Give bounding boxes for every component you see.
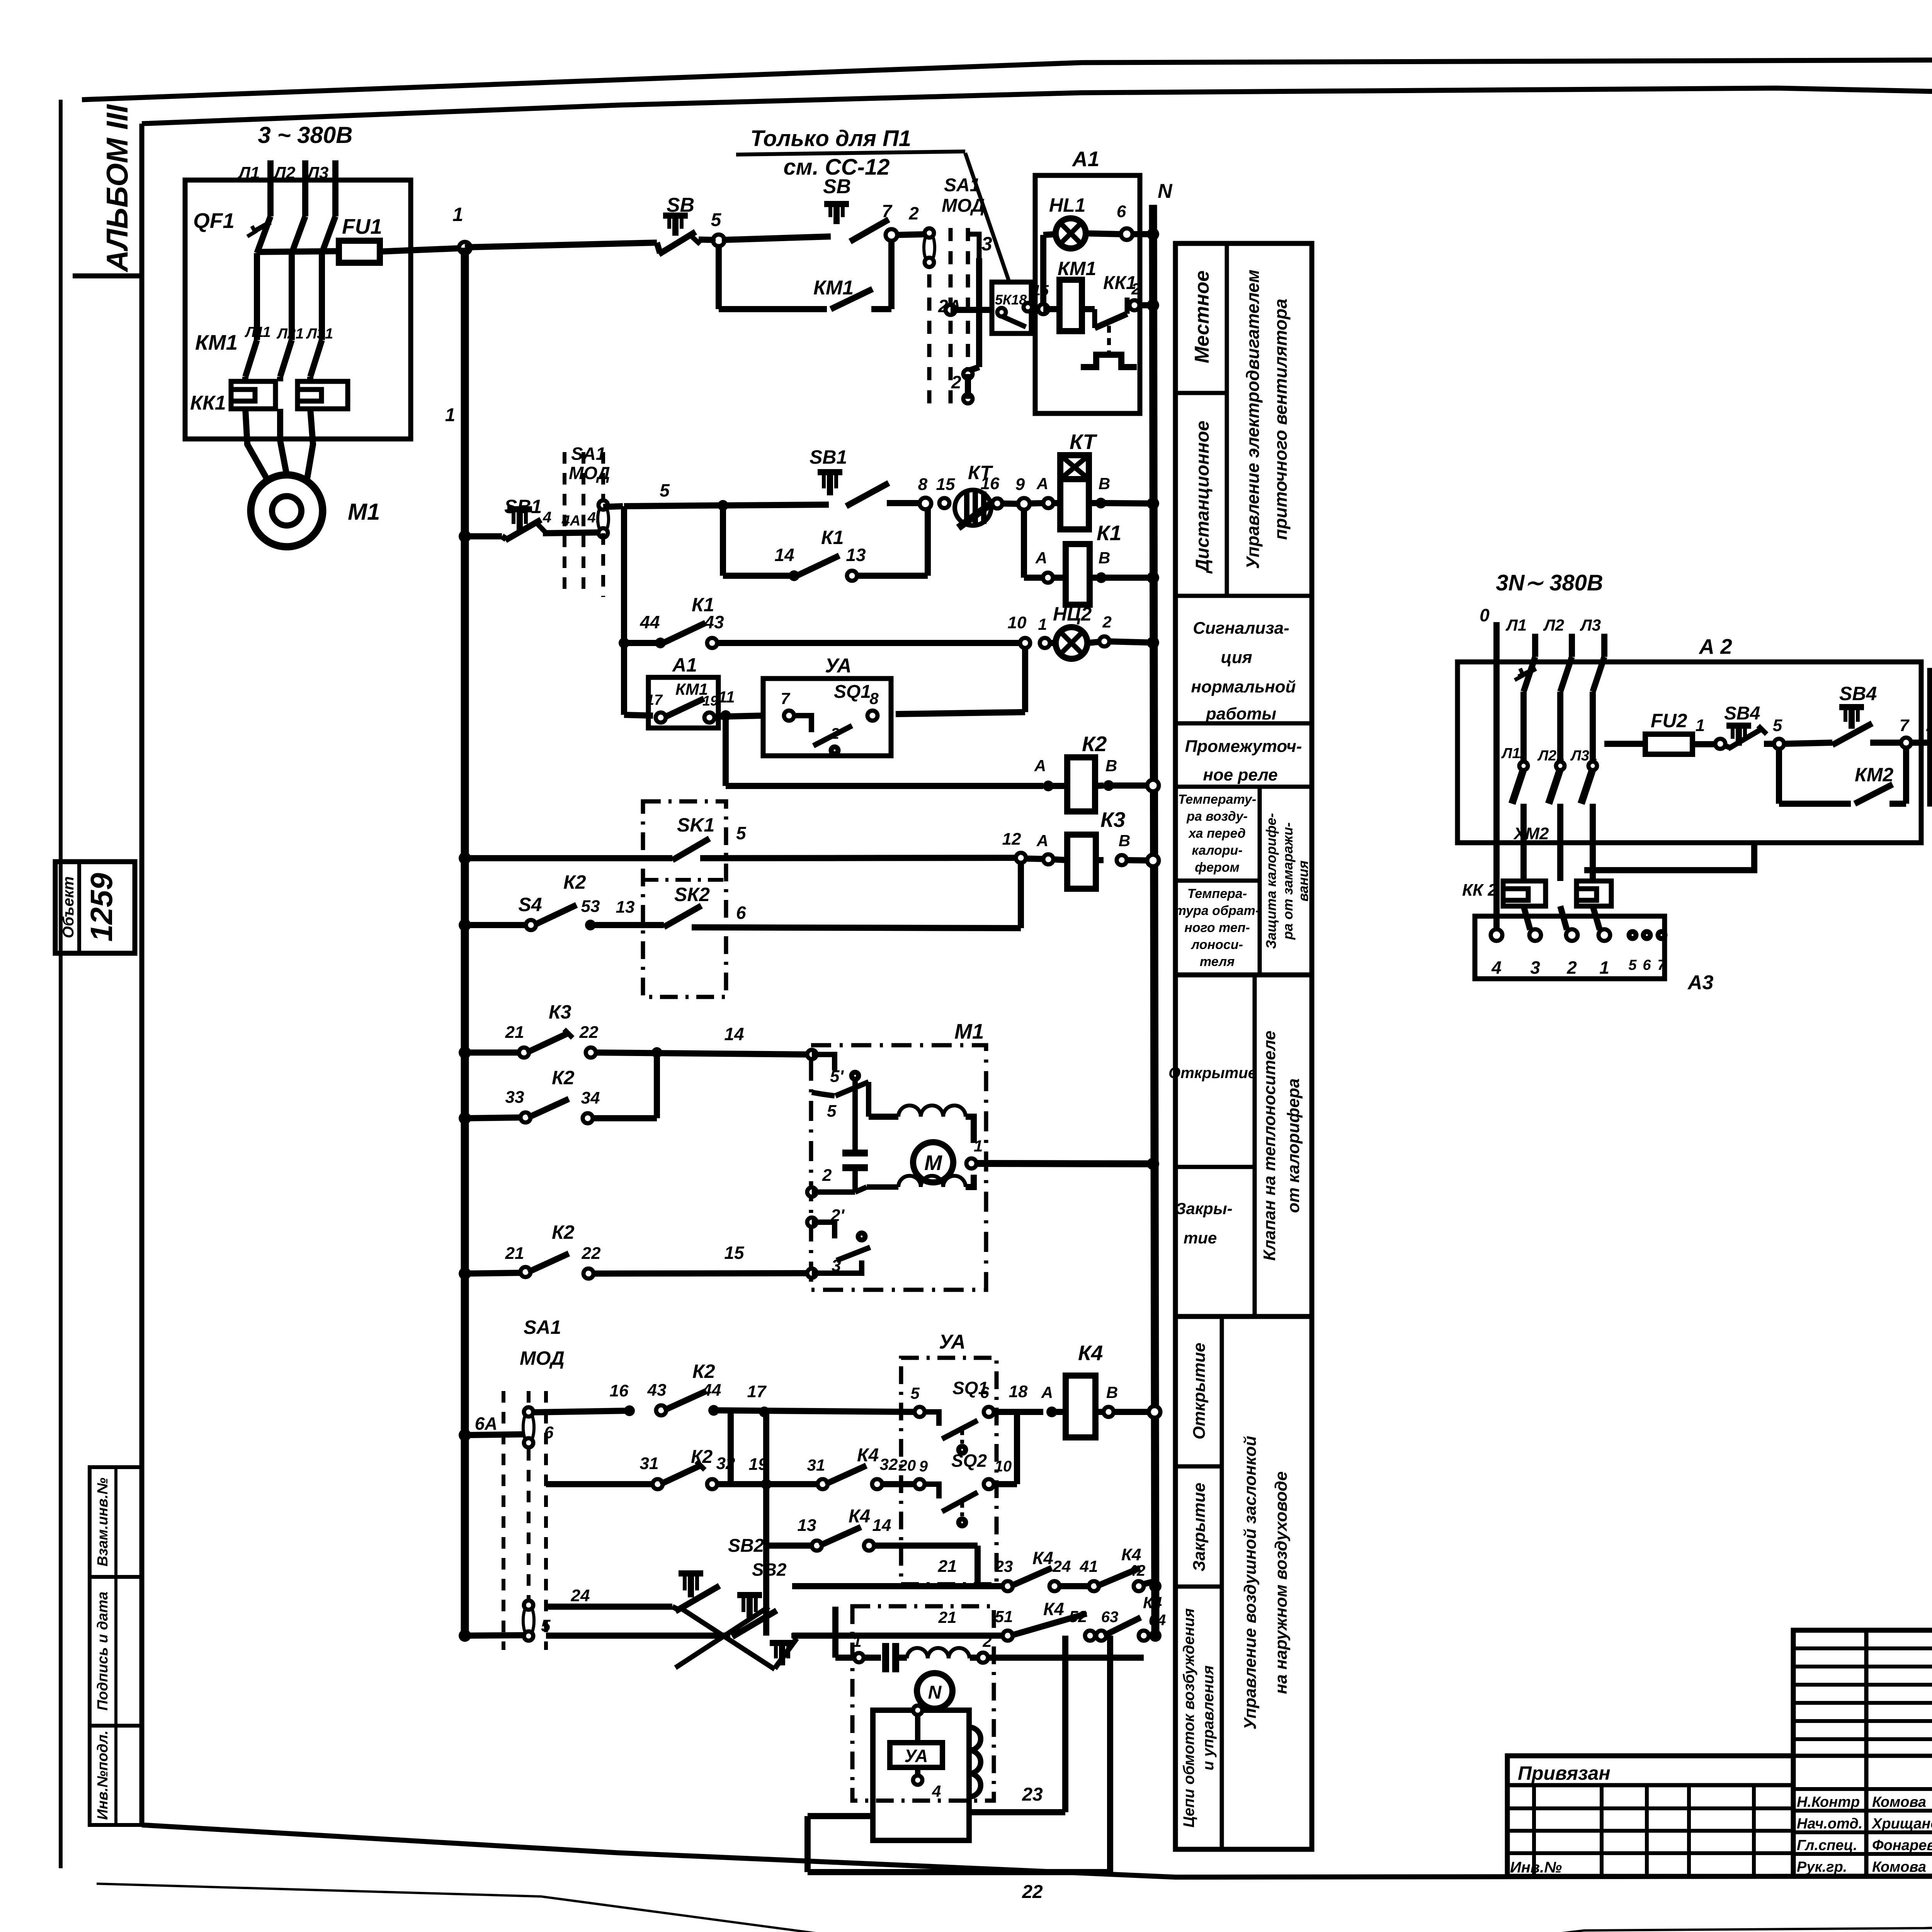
circuit breaker QF2 <box>1524 657 1535 692</box>
svg-text:Н.Контр: Н.Контр <box>1797 1794 1860 1810</box>
svg-text:А3: А3 <box>1687 971 1714 994</box>
svg-text:К4: К4 <box>1121 1545 1141 1564</box>
svg-text:КМ1: КМ1 <box>1058 258 1096 279</box>
svg-text:21: 21 <box>505 1023 524 1042</box>
svg-text:и управления: и управления <box>1200 1665 1217 1770</box>
svg-text:К2: К2 <box>552 1221 575 1243</box>
svg-text:лоноси-: лоноси- <box>1190 937 1243 952</box>
svg-text:24: 24 <box>1053 1557 1071 1575</box>
svg-text:1: 1 <box>852 1632 861 1650</box>
svg-text:Л11: Л11 <box>1501 745 1527 762</box>
vertical 19 down to bottom rungs <box>763 1412 769 1636</box>
sidebar cell Взам.инв.№ <box>90 1467 142 1577</box>
svg-text:А1: А1 <box>672 654 697 676</box>
rung 31-32-19 with K2 K4 SQ2 <box>546 1481 655 1487</box>
svg-text:7: 7 <box>882 201 893 221</box>
svg-text:1: 1 <box>445 405 456 425</box>
rung 16-43-44-17 <box>534 1411 626 1412</box>
svg-text:5: 5 <box>660 480 670 500</box>
SK2 return vertical to node 12 <box>1018 862 1024 928</box>
svg-text:Л1: Л1 <box>1505 616 1527 634</box>
svg-text:Л3: Л3 <box>1580 616 1601 634</box>
svg-text:44: 44 <box>639 612 660 632</box>
sheet outer left border <box>59 100 63 1868</box>
svg-text:44: 44 <box>702 1381 721 1400</box>
svg-text:42: 42 <box>1128 1562 1146 1579</box>
svg-text:К4: К4 <box>1043 1599 1064 1619</box>
table A cell температура воздуха <box>1258 787 1262 975</box>
function table B outline <box>1175 975 1312 1316</box>
svg-text:5: 5 <box>827 1102 837 1121</box>
sheet inner frame top line <box>142 88 1932 124</box>
svg-text:3N∼ 380В: 3N∼ 380В <box>1496 570 1603 595</box>
svg-text:ХМ2: ХМ2 <box>1513 824 1549 843</box>
svg-text:УА: УА <box>939 1331 966 1353</box>
leader line from note to БК18 <box>965 153 1009 282</box>
svg-text:МОД: МОД <box>942 196 985 216</box>
svg-text:6: 6 <box>544 1423 554 1442</box>
phase stubs to KM2 <box>1520 692 1527 763</box>
svg-text:5: 5 <box>736 823 747 843</box>
svg-text:Л3: Л3 <box>306 163 329 182</box>
svg-text:тура обрат-: тура обрат- <box>1175 903 1260 918</box>
relay K1 self-hold contact 14-13 branch <box>720 510 726 576</box>
svg-text:А: А <box>1041 1383 1053 1401</box>
SA1 lens contact at SB1 <box>601 452 605 502</box>
power assembly enclosure box <box>185 180 411 439</box>
rung 21-23-24-41-42 K4 <box>792 1583 1005 1589</box>
svg-text:на наружном воздуховоде: на наружном воздуховоде <box>1272 1471 1291 1694</box>
relay K2 coil rung <box>726 783 1043 789</box>
svg-text:6: 6 <box>1117 202 1126 221</box>
svg-text:2: 2 <box>908 203 919 223</box>
svg-text:теля: теля <box>1200 954 1235 969</box>
svg-text:К4: К4 <box>1032 1548 1053 1568</box>
svg-text:работы: работы <box>1206 704 1276 723</box>
svg-text:SQ1: SQ1 <box>834 682 871 702</box>
svg-text:В: В <box>1119 832 1130 850</box>
top rung wire from node1 to SB <box>465 243 657 247</box>
svg-text:ного теп-: ного теп- <box>1184 920 1250 935</box>
svg-text:6: 6 <box>980 1383 989 1401</box>
svg-text:16: 16 <box>610 1381 629 1400</box>
rung 44-43 K1 contact <box>619 638 629 648</box>
svg-text:Комова: Комова <box>1872 1859 1926 1875</box>
svg-text:16: 16 <box>981 474 1000 493</box>
svg-text:Местное: Местное <box>1191 270 1213 363</box>
svg-text:нормальной: нормальной <box>1191 677 1296 696</box>
svg-text:6А: 6А <box>475 1413 498 1434</box>
svg-text:Промежуточ-: Промежуточ- <box>1185 737 1302 756</box>
pushbutton SB1 (break) rung <box>459 530 471 543</box>
svg-text:КМ1: КМ1 <box>195 330 238 354</box>
svg-text:АЛЬБОМ III: АЛЬБОМ III <box>100 104 134 272</box>
vertical node11 down to K2 rung <box>723 719 729 786</box>
interlock box A1 right <box>1930 670 1932 804</box>
terminal strip A3 <box>1475 916 1665 979</box>
svg-text:ра от замаражи-: ра от замаражи- <box>1280 822 1296 940</box>
svg-text:13: 13 <box>846 545 866 565</box>
aux contact box A1 (KM1 17-19) <box>648 677 718 728</box>
svg-text:К2: К2 <box>563 871 586 893</box>
bottom damper motor N circle <box>917 1673 952 1709</box>
svg-text:1: 1 <box>452 204 463 225</box>
svg-text:22: 22 <box>1022 1882 1043 1902</box>
rung 21-22 K2 to damper M1 input 3 <box>459 1267 471 1280</box>
svg-text:М1: М1 <box>954 1019 984 1043</box>
svg-text:51: 51 <box>995 1607 1013 1626</box>
svg-text:SK1: SK1 <box>677 814 714 836</box>
svg-text:1: 1 <box>1696 716 1705 735</box>
svg-text:8: 8 <box>869 689 879 707</box>
svg-text:19: 19 <box>702 693 718 709</box>
svg-text:Подпись и дата: Подпись и дата <box>95 1592 111 1711</box>
vertical link x1615 <box>621 506 627 715</box>
svg-text:5: 5 <box>1773 716 1782 735</box>
bypass vertical SQ2 to K4 feed <box>1014 1412 1020 1484</box>
svg-text:31: 31 <box>807 1456 825 1474</box>
svg-text:А: А <box>1036 474 1048 493</box>
svg-text:31: 31 <box>640 1454 659 1473</box>
svg-text:ция: ция <box>1221 648 1252 667</box>
signature table grid <box>1793 1630 1932 1876</box>
svg-text:Клапан на теплоносителе: Клапан на теплоносителе <box>1260 1031 1279 1260</box>
svg-text:Привязан: Привязан <box>1518 1762 1611 1784</box>
svg-text:Нач.отд.: Нач.отд. <box>1797 1816 1862 1832</box>
svg-text:QF1: QF1 <box>193 209 235 233</box>
sheet top outer border line <box>82 58 1932 100</box>
svg-text:фером: фером <box>1195 860 1240 875</box>
svg-text:К4: К4 <box>849 1506 870 1527</box>
wire phase to fuse FU2 <box>1604 741 1645 747</box>
svg-text:SК2: SК2 <box>674 884 710 905</box>
svg-text:КТ: КТ <box>1070 430 1097 454</box>
svg-text:К4: К4 <box>857 1445 879 1466</box>
svg-text:МОД: МОД <box>520 1347 565 1369</box>
svg-text:SА1: SА1 <box>524 1316 561 1338</box>
svg-text:8: 8 <box>918 475 928 494</box>
svg-text:10: 10 <box>995 1458 1012 1475</box>
svg-text:2: 2 <box>1102 613 1111 631</box>
svg-text:Температу-: Температу- <box>1178 792 1257 807</box>
KM1 holding bypass branch <box>716 246 722 309</box>
svg-text:6: 6 <box>1643 957 1651 973</box>
damper limit box УА (dash-dot, bottom) <box>901 1358 997 1584</box>
svg-text:N: N <box>928 1682 942 1703</box>
svg-text:Взам.инв.№: Взам.инв.№ <box>95 1478 111 1566</box>
svg-text:SB2: SB2 <box>728 1536 764 1556</box>
rung 21-22 K3 to damper M1 <box>459 1046 471 1059</box>
svg-text:НЦ2: НЦ2 <box>1053 603 1092 625</box>
svg-text:УА: УА <box>825 655 852 677</box>
svg-text:13: 13 <box>798 1516 816 1535</box>
vertical 17-19 link <box>728 1410 734 1484</box>
damper motor M circle <box>913 1142 953 1182</box>
svg-text:21: 21 <box>938 1608 957 1626</box>
wire node2 to N bus <box>1139 302 1153 308</box>
svg-text:Л2: Л2 <box>273 163 296 182</box>
svg-text:4: 4 <box>1491 957 1502 978</box>
svg-text:приточного вентилятора: приточного вентилятора <box>1270 299 1291 540</box>
wire QF1 phase stubs down <box>289 253 295 340</box>
vertical from node10 to SQ1 rung <box>1022 648 1028 712</box>
svg-text:А 2: А 2 <box>1698 634 1732 658</box>
bottom damper side winding <box>969 1727 981 1797</box>
svg-text:1: 1 <box>1038 615 1047 633</box>
wire node7 to A1 box <box>1911 740 1932 746</box>
svg-text:5: 5 <box>711 210 722 230</box>
svg-text:12: 12 <box>1002 830 1021 849</box>
svg-text:5: 5 <box>910 1384 920 1402</box>
svg-text:В: В <box>1099 474 1110 493</box>
relay K1 coil rung <box>1021 509 1027 578</box>
panel box A2 <box>1458 662 1921 843</box>
rung 13-14 K4 <box>766 1543 814 1549</box>
svg-text:А: А <box>1034 757 1046 775</box>
SA1 contact lens top <box>924 233 935 262</box>
svg-text:К2: К2 <box>692 1361 715 1382</box>
wire A2 bottom to heater area <box>1584 843 1754 870</box>
bottom damper solenoid УА box <box>873 1710 969 1840</box>
inner frame left border <box>139 124 145 1825</box>
svg-text:24: 24 <box>571 1586 590 1605</box>
svg-text:Инв.№подл.: Инв.№подл. <box>95 1730 111 1820</box>
svg-text:ра возду-: ра возду- <box>1186 809 1248 824</box>
svg-text:К2: К2 <box>1082 732 1107 756</box>
svg-text:Комова: Комова <box>1872 1794 1926 1810</box>
svg-text:Цепи обмоток возбуждения: Цепи обмоток возбуждения <box>1180 1608 1197 1828</box>
damper drive box M1 (dash-dot) <box>811 1045 986 1290</box>
function table C outline <box>1175 1316 1312 1849</box>
svg-text:Л31: Л31 <box>306 326 333 342</box>
svg-text:Инв.№: Инв.№ <box>1510 1859 1562 1876</box>
svg-text:N: N <box>1158 180 1173 202</box>
svg-text:15: 15 <box>936 475 955 494</box>
damper drive box (bottom, dash-dot) <box>852 1606 994 1801</box>
sidebar cell Подпись и дата <box>90 1577 142 1726</box>
svg-text:2: 2 <box>830 725 839 742</box>
wire БК18 to node 15 <box>1031 306 1043 312</box>
svg-text:11: 11 <box>718 688 735 706</box>
rung 21-51-52-63-64 K4 <box>792 1633 1005 1639</box>
svg-text:калори-: калори- <box>1192 843 1242 858</box>
svg-text:А: А <box>1036 832 1048 850</box>
wire node5 to SB4 make <box>1784 743 1832 744</box>
svg-text:18: 18 <box>1009 1382 1028 1401</box>
svg-text:КК1: КК1 <box>190 392 226 414</box>
sidebar cell Инв.№подл. <box>90 1726 142 1825</box>
thermostat S4 rung <box>459 919 471 931</box>
svg-text:33: 33 <box>505 1088 524 1107</box>
svg-text:7: 7 <box>1900 716 1910 735</box>
svg-text:Темпера-: Темпера- <box>1187 886 1247 901</box>
svg-text:21: 21 <box>505 1244 524 1263</box>
svg-text:В: В <box>1099 549 1110 567</box>
svg-text:Хрищанович: Хрищанович <box>1871 1816 1932 1832</box>
damper motor bottom winding <box>855 1187 867 1192</box>
svg-text:6: 6 <box>736 903 746 923</box>
svg-text:2: 2 <box>1131 280 1140 298</box>
svg-text:22: 22 <box>579 1023 599 1042</box>
svg-text:14: 14 <box>872 1516 891 1535</box>
svg-text:3: 3 <box>1530 957 1540 978</box>
terminal block БК18 <box>992 282 1031 333</box>
svg-text:ха перед: ха перед <box>1188 826 1246 841</box>
bottom damper winding <box>907 1648 969 1658</box>
svg-text:2: 2 <box>1566 957 1577 978</box>
svg-text:Дистанционное: Дистанционное <box>1192 421 1213 574</box>
svg-text:М1: М1 <box>348 499 380 525</box>
svg-text:SB: SB <box>823 175 851 198</box>
svg-text:К4: К4 <box>1078 1341 1103 1365</box>
wire node5 to SB2 <box>722 236 831 240</box>
svg-text:S4: S4 <box>518 894 542 915</box>
svg-text:53: 53 <box>581 897 600 916</box>
motor M1 <box>251 475 323 547</box>
svg-text:В: В <box>1105 757 1117 775</box>
svg-text:Защита калорифе-: Защита калорифе- <box>1263 813 1279 949</box>
svg-text:9: 9 <box>1015 475 1025 494</box>
svg-text:К1: К1 <box>821 527 844 548</box>
table A cell Местное <box>1225 243 1229 596</box>
svg-text:тие: тие <box>1184 1229 1217 1247</box>
svg-text:41: 41 <box>1080 1557 1098 1575</box>
svg-text:7: 7 <box>1657 957 1666 973</box>
svg-text:Л21: Л21 <box>276 326 304 342</box>
svg-text:7: 7 <box>781 689 790 707</box>
svg-text:Сигнализа-: Сигнализа- <box>1193 619 1289 638</box>
svg-text:К3: К3 <box>1100 808 1125 832</box>
rung wire to A1 aux box <box>624 715 653 716</box>
svg-text:5: 5 <box>541 1616 551 1635</box>
svg-text:4: 4 <box>543 509 551 526</box>
svg-text:3: 3 <box>981 233 992 255</box>
svg-text:Гл.спец.: Гл.спец. <box>1797 1837 1857 1854</box>
inner frame bottom line <box>142 1825 1932 1877</box>
svg-text:15: 15 <box>724 1243 745 1263</box>
svg-text:Фонарев: Фонарев <box>1872 1837 1932 1854</box>
svg-text:2: 2 <box>951 372 961 392</box>
SA1 lens contact 5 (bottom) <box>523 1605 534 1636</box>
svg-text:FU2: FU2 <box>1651 710 1687 731</box>
svg-text:Открытие: Открытие <box>1168 1065 1257 1082</box>
svg-text:SQ2: SQ2 <box>951 1451 987 1471</box>
svg-text:1: 1 <box>974 1137 983 1155</box>
svg-text:23: 23 <box>995 1557 1013 1575</box>
limit switch box УА with SQ1 <box>763 679 891 756</box>
svg-text:13: 13 <box>616 898 635 917</box>
svg-text:34: 34 <box>581 1088 600 1107</box>
motor leads to M1 <box>245 409 267 478</box>
svg-text:SB2: SB2 <box>752 1560 787 1580</box>
vertical 63 to 22 wire <box>1107 1636 1113 1872</box>
svg-text:Закрытие: Закрытие <box>1190 1483 1209 1571</box>
svg-text:Рук.гр.: Рук.гр. <box>1797 1859 1847 1875</box>
svg-text:вания: вания <box>1295 861 1311 901</box>
svg-text:1259: 1259 <box>84 873 119 942</box>
svg-text:14: 14 <box>774 545 794 565</box>
svg-text:Л1: Л1 <box>238 163 260 182</box>
svg-text:22: 22 <box>582 1244 601 1263</box>
KK1 heater dashes and element <box>1107 326 1111 352</box>
svg-text:А1: А1 <box>1071 147 1099 171</box>
wire from QF1 to fuse FU1 <box>254 253 260 270</box>
svg-text:КК 2: КК 2 <box>1462 881 1497 900</box>
svg-text:Л11: Л11 <box>244 324 271 340</box>
svg-text:SА1: SА1 <box>944 175 980 196</box>
sidebar divider under АЛЬБОМ III <box>73 274 142 279</box>
svg-text:Только для П1: Только для П1 <box>750 126 911 151</box>
annex table Привязан <box>1507 1756 1793 1876</box>
thermostat SK1 rung <box>459 852 471 864</box>
svg-text:Объект: Объект <box>60 876 77 938</box>
svg-text:52: 52 <box>1069 1607 1087 1626</box>
svg-text:9: 9 <box>919 1458 928 1475</box>
svg-text:SА1: SА1 <box>571 444 605 464</box>
svg-text:20: 20 <box>898 1457 916 1474</box>
svg-text:Управление воздушной заслонкой: Управление воздушной заслонкой <box>1241 1436 1260 1730</box>
svg-text:17: 17 <box>747 1382 767 1401</box>
svg-text:ное реле: ное реле <box>1203 765 1277 784</box>
svg-text:2: 2 <box>982 1632 992 1650</box>
svg-text:63: 63 <box>1101 1609 1119 1626</box>
svg-text:4: 4 <box>932 1782 941 1800</box>
svg-text:А: А <box>1035 549 1047 567</box>
svg-text:от калорифера: от калорифера <box>1284 1078 1303 1213</box>
svg-text:23: 23 <box>1022 1784 1043 1805</box>
branch 33-34 K2 <box>459 1112 471 1124</box>
right vertical N bus wire <box>1153 205 1155 1636</box>
svg-text:10: 10 <box>1008 613 1027 632</box>
svg-text:SB4: SB4 <box>1839 683 1877 704</box>
panel box A1 <box>1035 175 1140 413</box>
svg-text:1: 1 <box>1599 957 1609 978</box>
svg-text:УА: УА <box>905 1746 928 1766</box>
svg-text:43: 43 <box>647 1381 667 1400</box>
svg-text:К3: К3 <box>549 1001 571 1023</box>
svg-text:2: 2 <box>822 1166 832 1185</box>
damper motor top winding <box>869 1114 898 1120</box>
svg-text:SB4: SB4 <box>1724 703 1760 724</box>
svg-text:32: 32 <box>880 1455 898 1473</box>
svg-text:М: М <box>924 1151 942 1175</box>
function table A outline <box>1175 243 1312 975</box>
svg-text:К1: К1 <box>1097 521 1121 545</box>
svg-text:14: 14 <box>724 1024 744 1044</box>
svg-text:К2: К2 <box>552 1067 575 1088</box>
svg-text:0: 0 <box>1480 605 1490 625</box>
svg-text:21: 21 <box>938 1557 957 1576</box>
svg-text:Л2: Л2 <box>1543 616 1564 634</box>
svg-text:КМ1: КМ1 <box>813 277 854 299</box>
capacitor in M1 <box>852 1079 858 1151</box>
vertical 52 to 23 wire <box>1062 1636 1068 1812</box>
wire 43 to lamp НЦ2 <box>717 640 1020 646</box>
left vertical control bus wire <box>461 248 469 1636</box>
svg-text:HL1: HL1 <box>1049 194 1085 216</box>
KM2 holding bypass right <box>1776 748 1782 804</box>
svg-text:Управление электродвигателем: Управление электродвигателем <box>1243 270 1263 569</box>
svg-text:Открытие: Открытие <box>1190 1343 1209 1440</box>
SA1 lens contact 6 <box>523 1412 534 1443</box>
thermostat box SK1 SK2 (dash-dot) <box>643 801 726 997</box>
svg-text:КМ2: КМ2 <box>1855 764 1893 786</box>
sheet bottom edge line <box>97 1884 1932 1932</box>
svg-text:5: 5 <box>1628 957 1637 973</box>
svg-text:43: 43 <box>704 612 724 632</box>
svg-text:FU1: FU1 <box>342 214 382 238</box>
svg-text:Закры-: Закры- <box>1175 1199 1232 1218</box>
